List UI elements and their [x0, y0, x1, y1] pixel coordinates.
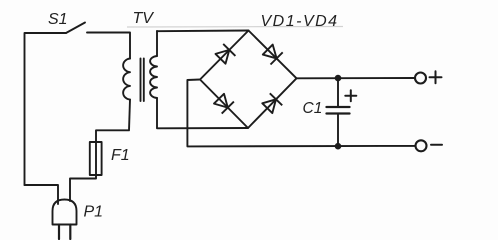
svg-text:C1: C1	[303, 100, 323, 117]
svg-text:TV: TV	[133, 10, 155, 27]
svg-text:F1: F1	[111, 147, 130, 164]
svg-text:P1: P1	[84, 204, 104, 221]
svg-text:S1: S1	[48, 11, 68, 28]
svg-text:VD1-VD4: VD1-VD4	[261, 13, 339, 30]
